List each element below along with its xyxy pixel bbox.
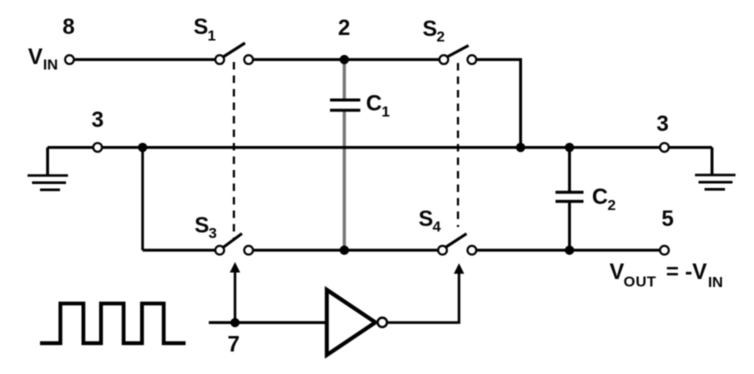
svg-text:S: S — [423, 16, 438, 41]
switch S1 — [215, 43, 253, 64]
svg-text:C: C — [592, 184, 608, 209]
node 2 junction — [340, 55, 349, 64]
svg-text:2: 2 — [437, 29, 445, 46]
svg-text:= -V: = -V — [666, 259, 707, 284]
svg-text:S: S — [195, 213, 210, 238]
ground left — [28, 147, 69, 189]
label S4 — [419, 206, 442, 236]
terminal VOUT (pin 5) — [660, 246, 669, 255]
svg-text:OUT: OUT — [624, 274, 657, 291]
label S2 — [423, 16, 445, 46]
svg-text:3: 3 — [209, 225, 217, 242]
junction middle-left — [138, 143, 147, 152]
terminal left ground (pin 3) — [93, 143, 102, 152]
svg-text:S: S — [419, 206, 434, 231]
switch S3 — [215, 234, 253, 255]
svg-text:IN: IN — [708, 274, 723, 291]
wire: middle rail down to bottom rail (left side) — [141, 147, 144, 250]
wire bottom: S3 to S4 — [252, 249, 439, 252]
svg-text:5: 5 — [662, 206, 674, 231]
label VOUT = -VIN — [610, 259, 724, 291]
clock waveform symbol — [40, 304, 186, 344]
node 7 junction — [230, 318, 239, 327]
wire S3 control — [234, 272, 237, 323]
wire bottom: S4 to output terminal — [475, 249, 664, 252]
svg-text:IN: IN — [43, 57, 58, 74]
wire middle rail (ground rail) — [48, 146, 712, 149]
terminal right ground (pin 3) — [660, 143, 669, 152]
inverter U1 — [327, 290, 387, 355]
capacitor C2 — [556, 147, 584, 250]
wire top: S2 to corner, down to middle rail — [475, 60, 521, 148]
arrowhead S4 control — [454, 263, 464, 274]
svg-text:8: 8 — [63, 14, 75, 39]
wire top: VIN terminal to S1 — [73, 58, 216, 61]
dashed link S1-S3 — [233, 62, 235, 240]
junction S2 drop on middle rail — [516, 143, 525, 152]
svg-text:V: V — [28, 44, 43, 69]
dashed link S2-S4 — [457, 63, 459, 227]
wire bottom: left vertical to S3 — [143, 249, 216, 252]
switch S2 — [439, 46, 476, 64]
svg-text:2: 2 — [608, 197, 616, 214]
svg-text:V: V — [610, 259, 625, 284]
label C1 — [366, 91, 390, 121]
label C2 — [592, 184, 616, 214]
label VIN — [28, 44, 58, 74]
svg-text:S: S — [194, 14, 209, 39]
wire top: S1 to S2 — [252, 58, 440, 61]
wire clock input to inverter — [209, 321, 327, 324]
svg-text:1: 1 — [382, 104, 390, 121]
wire inverter output to S4 control corner — [388, 273, 459, 323]
capacitor C1 — [330, 60, 360, 251]
ground right — [695, 147, 736, 189]
svg-text:C: C — [366, 91, 382, 116]
junction C1 bottom — [340, 246, 349, 255]
label S1 — [194, 14, 216, 45]
junction C2 top — [565, 143, 574, 152]
svg-text:7: 7 — [228, 332, 240, 357]
svg-text:3: 3 — [657, 111, 669, 136]
svg-text:1: 1 — [208, 28, 216, 45]
svg-text:4: 4 — [433, 219, 442, 236]
svg-text:2: 2 — [338, 15, 350, 40]
terminal VIN (pin 8) — [65, 55, 74, 64]
switch S4 — [438, 234, 476, 255]
junction C2 bottom — [565, 246, 574, 255]
label S3 — [195, 213, 217, 243]
svg-text:3: 3 — [92, 107, 104, 132]
arrowhead S3 control — [230, 262, 240, 273]
